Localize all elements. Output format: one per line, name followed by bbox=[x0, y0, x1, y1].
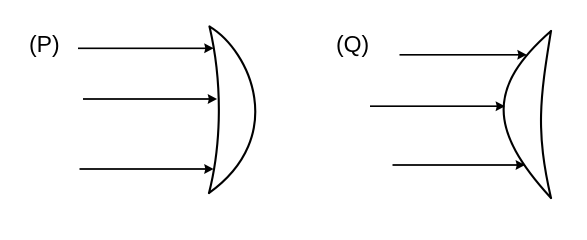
svg-text:(P): (P) bbox=[29, 31, 60, 57]
lens P (concave-left, convex-right meniscus) bbox=[209, 27, 255, 194]
ray arrow P3 (bottom) bbox=[80, 164, 214, 174]
ray arrow P1 (top) bbox=[78, 43, 214, 53]
lens Q (convex-left, concave-right meniscus) bbox=[504, 31, 551, 198]
ray arrow Q2 (middle) bbox=[370, 101, 505, 111]
ray arrow P2 (middle) bbox=[83, 94, 217, 104]
ray arrow Q1 (top) bbox=[400, 50, 527, 60]
svg-text:(Q): (Q) bbox=[336, 31, 369, 57]
ray arrow Q3 (bottom) bbox=[393, 160, 526, 170]
